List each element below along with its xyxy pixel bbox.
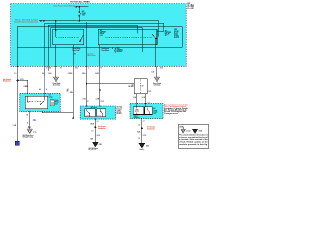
label M1 right block (117, 106, 123, 115)
svg-text:0.8 B: 0.8 B (95, 73, 98, 75)
svg-text:Underhood: Underhood (102, 48, 110, 50)
legend arrow (182, 127, 184, 129)
wire L1 entry 2 (44, 66, 46, 76)
svg-text:Low Prs: Low Prs (86, 115, 91, 117)
svg-text:Comp: Comp (49, 96, 53, 98)
label ground right (33, 130, 37, 134)
label relay internal (100, 29, 106, 37)
legend filled triangle (193, 129, 198, 133)
svg-text:GRN: GRN (70, 92, 73, 94)
svg-text:= Mod: = Mod (198, 131, 202, 133)
wire route D (51, 28, 143, 53)
svg-text:0.8: 0.8 (132, 85, 134, 87)
clutch internals (135, 104, 149, 115)
svg-text:1.0: 1.0 (138, 125, 140, 127)
wire L1 ground exit (28, 112, 30, 127)
svg-text:1 BLK: 1 BLK (90, 123, 94, 125)
wire fuse bottom lead (78, 16, 80, 21)
wire to chassis ground (28, 127, 30, 129)
wire relay pin to G105 (55, 45, 57, 77)
svg-text:G110: G110 (146, 146, 149, 148)
svg-text:From Diode: From Diode (53, 83, 61, 85)
svg-text:DK: DK (67, 90, 69, 92)
label underhood fuse block (88, 53, 96, 57)
wire battery drop (17, 47, 19, 141)
label pin 85 (102, 48, 110, 52)
svg-text:C125: C125 (148, 91, 152, 93)
svg-text:Micro Relay: Micro Relay (73, 48, 81, 50)
wire bus A (39, 21, 159, 37)
label connector exits blue (46, 66, 163, 69)
ground G103 filled triangle (93, 142, 99, 147)
svg-text:BLK: BLK (91, 138, 94, 140)
ground case open triangle (154, 77, 159, 82)
wire M2 ground exit (141, 119, 143, 144)
wire relay pin to switch 1 (86, 23, 88, 106)
label M2 inner right (153, 107, 157, 115)
wire L1 blue exit (42, 112, 73, 113)
svg-text:Fuse Block: Fuse Block (102, 50, 110, 52)
inline connector (28, 126, 30, 127)
svg-text:B: B (87, 101, 88, 103)
node splice S3 (55, 20, 57, 22)
label L1 title (49, 94, 59, 106)
svg-text:MODULE: MODULE (117, 51, 123, 53)
label pin 87 (73, 48, 81, 55)
node splice on feed (76, 6, 78, 8)
node splice ground (94, 126, 96, 128)
relay switch arm (152, 34, 156, 38)
pin dots at component boundaries (27, 93, 146, 120)
connector dashed divider (140, 80, 142, 93)
svg-text:1.0: 1.0 (91, 131, 93, 133)
fuse A/C 10A (79, 11, 81, 16)
relay 1 switch arm (80, 35, 83, 41)
label 73 wire (67, 89, 73, 94)
grid dots (0, 0, 210, 150)
node splice S1 (40, 20, 42, 22)
svg-text:Relay: Relay (55, 102, 59, 104)
relay box 2 outline (98, 29, 157, 45)
svg-text:0.8 B: 0.8 B (96, 98, 99, 100)
svg-text:C2: C2 (97, 121, 99, 123)
label fuse value (82, 10, 86, 16)
svg-text:C2: C2 (148, 102, 150, 104)
node splice S2 (43, 20, 45, 22)
svg-text:B: B (112, 48, 113, 50)
wire connector out 1 (136, 94, 138, 104)
node splice 2 on feed (79, 6, 81, 8)
svg-text:0.8 DG: 0.8 DG (68, 73, 72, 75)
legend text (179, 134, 209, 146)
connector terminal blue (15, 141, 19, 145)
svg-text:DK GRN: DK GRN (128, 86, 133, 88)
svg-text:0.8: 0.8 (142, 85, 144, 87)
node L1 coil (27, 101, 28, 102)
wire M1 ground exit (94, 119, 96, 142)
ground G110 filled triangle (139, 144, 145, 149)
label See Ground Distribution mid (98, 125, 106, 130)
connector stub (73, 118, 74, 119)
svg-text:C125: C125 (100, 101, 104, 103)
svg-text:1.0 B: 1.0 B (48, 73, 51, 75)
note text top right (187, 3, 194, 10)
wire branch to connector (87, 83, 135, 85)
ground G105 chassis triangle (27, 129, 32, 134)
wire route C (48, 25, 137, 71)
compressor clutch box M2 (130, 104, 163, 119)
pin dots at fuse block boundary (17, 66, 156, 67)
switch M1 inner box 1 (85, 109, 95, 117)
legend open triangle (181, 129, 185, 133)
node splice ground 2 (141, 127, 143, 129)
svg-text:BLK: BLK (137, 131, 140, 133)
svg-text:Of Engine Comp: Of Engine Comp (23, 137, 34, 139)
label G105 location (23, 134, 34, 139)
relay L1 internals (28, 96, 45, 105)
label A/C CMPRSR RELAY (165, 29, 171, 37)
svg-text:C3 = GRY: C3 = GRY (187, 8, 194, 10)
wire jog to relay L1 (18, 80, 28, 93)
wire relay pin to case ground (155, 39, 158, 78)
wire relay pin to connector (72, 45, 74, 118)
label case ground (153, 82, 161, 87)
svg-text:1.05: 1.05 (151, 72, 154, 74)
svg-text:1.0: 1.0 (138, 138, 140, 140)
svg-text:G103: G103 (99, 144, 102, 146)
wire fuse top lead (78, 7, 80, 11)
label See Serial Data Communications (14, 18, 39, 23)
svg-text:COIL: COIL (100, 35, 103, 37)
label relay detail (174, 29, 179, 39)
label G105 (53, 83, 61, 87)
wire hot feed (75, 6, 89, 8)
svg-text:BLOCK: BLOCK (174, 37, 179, 39)
wire coil feed (55, 21, 57, 37)
clutch relay inner box (25, 96, 47, 108)
label See Ground Distribution right (147, 126, 155, 131)
legend box (178, 125, 209, 148)
label wire gauges row (14, 72, 154, 76)
node contact pivot (155, 38, 157, 40)
svg-text:2.0: 2.0 (42, 73, 44, 75)
svg-text:HOT AT ALL TIMES: HOT AT ALL TIMES (70, 1, 90, 4)
switch M1 inner box 2 (97, 109, 106, 117)
label connector left (128, 85, 133, 89)
label gauge above M1 (83, 97, 99, 100)
inner fuse block outline (17, 27, 182, 48)
svg-text:Hi Prs: Hi Prs (97, 115, 101, 117)
ground G105 open triangle (53, 77, 58, 82)
connector box C125 (134, 79, 147, 94)
label See Ground Distribution left (3, 79, 11, 83)
wire relay pin to switch 2 (99, 45, 101, 106)
svg-text:See Fuse: See Fuse (88, 53, 94, 55)
svg-text:C2: C2 (143, 121, 145, 123)
svg-text:G110: G110 (143, 135, 147, 137)
label See Power Distribution (54, 5, 75, 8)
svg-text:1.0 B: 1.0 B (142, 97, 145, 99)
fuse block highlight box (11, 4, 187, 67)
relay 2 dashed line (106, 36, 152, 38)
relay box outline (53, 29, 84, 45)
svg-text:Coil Diode: Coil Diode (154, 85, 161, 87)
label M2 inner bottom (134, 114, 140, 119)
node splice S121 (17, 79, 19, 81)
svg-text:G103: G103 (97, 135, 101, 137)
svg-text:FUSE: FUSE (82, 13, 86, 15)
svg-text:B: B (46, 89, 47, 91)
svg-text:2 C135: 2 C135 (46, 67, 51, 69)
relay 1 contact pivot (79, 41, 80, 42)
svg-text:See Ground: See Ground (3, 79, 11, 81)
switch M1 internals (87, 109, 103, 117)
label brace group (114, 47, 123, 53)
node coil pin (55, 30, 56, 31)
svg-text:1 BRN: 1 BRN (24, 86, 28, 88)
relay contact dashed line (56, 36, 79, 38)
clutch inner box 1 (133, 107, 144, 115)
node junction route B (86, 23, 87, 24)
wire connector out 2 (145, 94, 147, 104)
svg-text:1.0 B: 1.0 B (13, 125, 16, 127)
clutch inner box 2 (145, 107, 153, 115)
wire route B (45, 23, 164, 66)
svg-text:C1: C1 (33, 120, 35, 122)
svg-text:On Some Models) In: On Some Models) In (164, 110, 187, 112)
compressor clutch relay box (20, 93, 60, 111)
inline connector ticks (99, 88, 101, 91)
pressure switch box M1 (80, 106, 115, 119)
node branch dot (86, 83, 88, 85)
L1 coil sub-box (50, 100, 54, 106)
label M2 right block (164, 103, 188, 115)
node splice S4 (79, 20, 81, 22)
svg-text:1.0: 1.0 (14, 73, 16, 75)
